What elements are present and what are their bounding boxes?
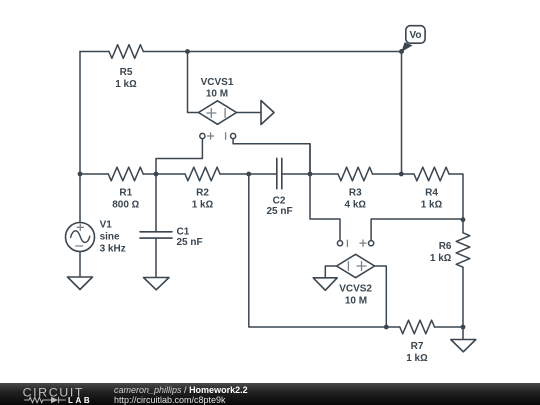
svg-text:800 Ω: 800 Ω bbox=[112, 200, 139, 211]
wire node A down to C1 bbox=[155, 174, 157, 232]
svg-text:R1: R1 bbox=[119, 188, 132, 199]
svg-text:25 nF: 25 nF bbox=[177, 237, 203, 248]
flag Vo pointer bbox=[401, 42, 412, 52]
wire V1 top stub bbox=[79, 174, 81, 223]
svg-text:VCVS1: VCVS1 bbox=[201, 77, 234, 88]
capacitor C1 bbox=[140, 232, 172, 238]
wire main rail: left node to R1 bbox=[80, 173, 108, 175]
resistor R4 bbox=[414, 167, 449, 181]
resistor R5 bbox=[109, 45, 143, 59]
VCVS1 control minus mark bbox=[225, 133, 227, 139]
wire node C junction vertical through main rail bbox=[309, 144, 311, 174]
wire R1 to node A bbox=[143, 173, 185, 175]
node C bbox=[308, 172, 313, 177]
wire VCVS1 plus control to node A bbox=[156, 139, 202, 174]
node VCVS2 output bbox=[384, 325, 389, 330]
svg-text:V1: V1 bbox=[100, 220, 113, 231]
svg-text:4 kΩ: 4 kΩ bbox=[345, 200, 367, 211]
svg-text:R3: R3 bbox=[349, 188, 362, 199]
svg-text:R4: R4 bbox=[425, 188, 438, 199]
wire V1 bottom stub bbox=[79, 252, 81, 278]
svg-text:http://circuitlab.com/c8pte9k: http://circuitlab.com/c8pte9k bbox=[114, 395, 226, 405]
wire VCVS2 output down to bottom rail bbox=[375, 266, 387, 327]
terminal VCVS2 plus control bbox=[369, 241, 374, 246]
V1 minus mark bbox=[76, 245, 83, 247]
wire VCVS1 output bbox=[237, 112, 262, 114]
terminal VCVS1 plus control bbox=[200, 133, 205, 138]
capacitor C2 bbox=[277, 158, 282, 188]
V1 plus mark bbox=[77, 224, 83, 230]
wire top rail right segment bbox=[143, 51, 401, 53]
node E bbox=[461, 217, 466, 222]
node dots bbox=[78, 49, 466, 329]
svg-text:R7: R7 bbox=[411, 341, 424, 352]
wire Vo vertical bbox=[401, 52, 403, 175]
wire R4 to right corner down to node E bbox=[449, 174, 463, 220]
VCVS2 diamond minus mark bbox=[347, 262, 349, 271]
terminal VCVS1 minus control bbox=[231, 133, 236, 138]
node top rail VCVS1 tap bbox=[185, 49, 190, 54]
VCVS2 diamond plus mark bbox=[357, 262, 366, 271]
svg-text:R2: R2 bbox=[196, 188, 209, 199]
footer bar bbox=[0, 383, 540, 405]
wire R6 bottom to bottom rail bbox=[462, 267, 464, 327]
svg-text:R5: R5 bbox=[120, 67, 133, 78]
resistor R3 bbox=[338, 167, 373, 181]
svg-text:10 M: 10 M bbox=[206, 89, 228, 100]
svg-text:10 M: 10 M bbox=[345, 295, 367, 306]
svg-text:25 nF: 25 nF bbox=[266, 206, 292, 217]
op-amp VCVS1 diamond bbox=[199, 101, 237, 125]
VCVS2 control minus mark bbox=[346, 240, 348, 246]
wire R2 to node B bbox=[220, 173, 277, 175]
wire ground stub bottom right bbox=[462, 327, 464, 340]
svg-text:C1: C1 bbox=[177, 227, 190, 238]
terminal VCVS2 minus control bbox=[337, 241, 342, 246]
polarity marks gray bbox=[76, 109, 366, 271]
svg-text:R6: R6 bbox=[439, 241, 452, 252]
node B bbox=[246, 172, 251, 177]
svg-text:C2: C2 bbox=[273, 195, 286, 206]
wire VCVS1 minus control to node C and down to VCVS2 bbox=[233, 139, 340, 241]
wire node B down and bottom rail bbox=[249, 174, 400, 327]
VCVS1 diamond plus mark bbox=[207, 109, 216, 118]
logo diode triangle bbox=[51, 397, 58, 403]
VCVS1 control plus mark bbox=[208, 133, 214, 139]
wire C1 bottom stub bbox=[155, 238, 157, 277]
resistor R2 bbox=[185, 167, 220, 181]
node bottom right bbox=[461, 325, 466, 330]
svg-text:VCVS2: VCVS2 bbox=[339, 284, 372, 295]
voltage source V1 bbox=[66, 223, 95, 252]
svg-text:1 kΩ: 1 kΩ bbox=[430, 253, 452, 264]
svg-text:sine: sine bbox=[100, 232, 120, 243]
node D bbox=[399, 172, 404, 177]
VCVS2 control plus mark bbox=[360, 240, 366, 246]
wire top rail left segment bbox=[80, 51, 109, 53]
wire VCVS2 plus control to node E bbox=[371, 219, 463, 241]
ground bottom right bbox=[451, 340, 476, 352]
svg-text:1 kΩ: 1 kΩ bbox=[406, 353, 428, 364]
wire top rail to VCVS1 bbox=[188, 52, 199, 113]
svg-text:1 kΩ: 1 kΩ bbox=[192, 200, 214, 211]
node Vo bbox=[399, 49, 404, 54]
VCVS1 diamond minus mark bbox=[224, 109, 226, 118]
svg-text:1 kΩ: 1 kΩ bbox=[421, 200, 443, 211]
wire C2 to node C bbox=[282, 173, 338, 175]
ground VCVS2 bbox=[313, 278, 337, 291]
flag Vo box bbox=[406, 26, 425, 44]
wire left rail vertical bbox=[79, 52, 81, 175]
VCVS1 output arrow bbox=[261, 101, 274, 125]
resistor R7 bbox=[400, 320, 435, 334]
svg-text:Vo: Vo bbox=[409, 30, 421, 41]
wire R3 to node D bbox=[373, 173, 415, 175]
svg-text:1 kΩ: 1 kΩ bbox=[115, 79, 137, 90]
node left rail bbox=[78, 172, 83, 177]
resistor R6 bbox=[456, 233, 470, 267]
op-amp VCVS2 diamond bbox=[337, 254, 375, 277]
wire node E to R6 bbox=[462, 220, 464, 233]
ground below V1 bbox=[68, 277, 93, 290]
resistor R1 bbox=[108, 167, 143, 181]
logo wire resistor diode bbox=[24, 397, 66, 403]
svg-text:LAB: LAB bbox=[68, 396, 92, 405]
node A bbox=[154, 172, 159, 177]
svg-text:3 kHz: 3 kHz bbox=[100, 244, 126, 255]
svg-text:cameron_phillips / Homework2.2: cameron_phillips / Homework2.2 bbox=[114, 385, 248, 395]
wire VCVS2 left to ground bbox=[325, 266, 336, 278]
wire R7 to bottom right node bbox=[435, 326, 464, 328]
ground below C1 bbox=[144, 278, 170, 290]
